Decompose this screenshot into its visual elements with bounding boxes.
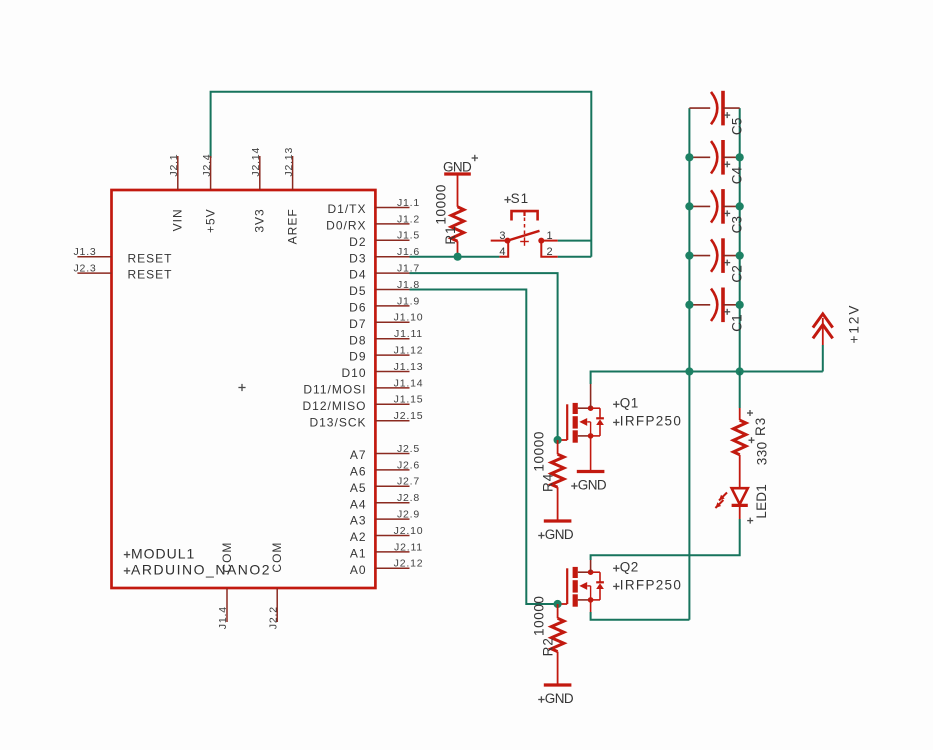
svg-text:C2: C2 [730, 265, 745, 283]
wire capacitor right rail [739, 108, 741, 371]
resistor R2 10000 [557, 604, 559, 618]
supply symbol +12V [813, 314, 833, 328]
svg-text:C1: C1 [730, 314, 745, 332]
svg-text:COM: COM [270, 542, 284, 573]
node: junction D5/Q2 gate/R2 [554, 600, 562, 608]
node: junction D4/Q1 gate/R4 [554, 436, 562, 444]
svg-text:GND: GND [545, 691, 574, 706]
svg-text:J1.13: J1.13 [394, 361, 424, 373]
svg-text:+5V: +5V [203, 208, 217, 233]
module MODUL1 ARDUINO_NANO2 body [112, 190, 376, 588]
svg-text:COM: COM [220, 542, 234, 573]
svg-text:J2.14: J2.14 [250, 147, 262, 177]
svg-text:R4: R4 [540, 473, 555, 492]
pin J1.8 D5 [375, 289, 409, 291]
pin J2.3 RESET [77, 272, 111, 274]
svg-text:Q1: Q1 [620, 395, 639, 410]
pin J1.12 D9 [375, 354, 409, 356]
pin J2.11 A1 [375, 551, 409, 553]
wire D3 net to R1 and S1 pin 4 [410, 256, 500, 258]
pin J2.6 A6 [375, 469, 409, 471]
svg-text:R2: R2 [540, 637, 555, 656]
pin J2.9 A3 [375, 518, 409, 520]
svg-text:J1.12: J1.12 [394, 345, 424, 357]
svg-text:J2.15: J2.15 [394, 410, 424, 422]
pin J1.2 D0/RX [375, 223, 409, 225]
pin J1.13 D10 [375, 371, 409, 373]
svg-text:1: 1 [547, 230, 553, 242]
svg-text:S1: S1 [511, 191, 530, 206]
pin J1.14 D11/MOSI [375, 387, 409, 389]
svg-text:J1.14: J1.14 [394, 377, 424, 389]
pin J2.12 A0 [375, 567, 409, 569]
svg-text:RESET: RESET [128, 251, 173, 265]
pin J1.4 COM [226, 588, 228, 622]
switch S1 [504, 199, 510, 201]
svg-text:R1: R1 [443, 225, 458, 244]
pin J2.7 A5 [375, 485, 409, 487]
svg-text:VIN: VIN [171, 208, 185, 231]
svg-text:RESET: RESET [128, 268, 173, 282]
svg-text:LED1: LED1 [754, 484, 769, 519]
svg-text:D4: D4 [349, 268, 366, 282]
svg-text:3V3: 3V3 [253, 208, 267, 232]
pin J2.5 A7 [375, 453, 409, 455]
pin J1.7 D4 [375, 272, 409, 274]
pin J2.10 A2 [375, 535, 409, 537]
svg-text:D1/TX: D1/TX [327, 202, 366, 216]
svg-text:Q2: Q2 [620, 559, 639, 574]
svg-text:4: 4 [499, 246, 505, 258]
svg-text:A0: A0 [350, 563, 367, 577]
svg-text:J2.7: J2.7 [397, 476, 420, 488]
svg-text:J2.11: J2.11 [394, 541, 423, 553]
S1 pin 3 [491, 240, 507, 242]
svg-text:IRFP250: IRFP250 [620, 414, 682, 429]
svg-text:D5: D5 [349, 284, 366, 298]
svg-text:J2.4: J2.4 [201, 154, 213, 177]
svg-text:C4: C4 [730, 166, 745, 184]
svg-text:2: 2 [547, 246, 553, 258]
svg-text:ARDUINO_NANO2: ARDUINO_NANO2 [131, 562, 271, 578]
pin J1.1 D1/TX [375, 207, 409, 209]
svg-text:D7: D7 [349, 317, 366, 331]
svg-text:+12V: +12V [847, 304, 862, 344]
pin J2.8 A4 [375, 502, 409, 504]
svg-text:AREF: AREF [285, 208, 299, 244]
svg-text:D6: D6 [349, 301, 366, 315]
S1 contact arm [508, 231, 540, 241]
svg-text:C5: C5 [730, 117, 745, 135]
svg-text:J1.4: J1.4 [217, 606, 229, 629]
svg-text:R3: R3 [753, 417, 768, 436]
pin J1.11 D8 [375, 338, 409, 340]
svg-text:J1.9: J1.9 [397, 295, 420, 307]
svg-text:10000: 10000 [532, 595, 547, 636]
svg-text:330: 330 [754, 441, 769, 465]
svg-text:J2.13: J2.13 [283, 147, 295, 177]
pin J1.9 D6 [375, 305, 409, 307]
svg-text:GND: GND [443, 159, 472, 174]
node: right rail / +12V rail junction [736, 367, 744, 375]
svg-text:J2.12: J2.12 [394, 558, 424, 570]
svg-text:D11/MOSI: D11/MOSI [303, 383, 366, 397]
svg-text:D12/MISO: D12/MISO [302, 399, 366, 413]
svg-text:10000: 10000 [532, 431, 547, 472]
wire capacitor left rail [688, 108, 690, 620]
svg-text:J1.2: J1.2 [397, 213, 420, 225]
wire D5 net down to Q2 gate [410, 290, 558, 605]
capacitor C3 [689, 205, 710, 207]
resistor R1 10000 [457, 174, 459, 207]
svg-text:J1.11: J1.11 [394, 328, 423, 340]
svg-text:A5: A5 [350, 481, 367, 495]
pin J2.15 D13/SCK [375, 420, 409, 422]
wire Q1 drain to +12V rail [590, 384, 592, 408]
svg-text:D10: D10 [341, 366, 366, 380]
svg-text:A3: A3 [350, 514, 367, 528]
ground symbol GND above R1 [444, 172, 471, 175]
pin J1.5 D2 [375, 239, 409, 241]
S1 pin 2 [541, 243, 557, 257]
svg-text:C3: C3 [730, 216, 745, 234]
svg-text:A1: A1 [350, 547, 367, 561]
transistor Q2 IRFP250 [558, 603, 568, 605]
ground below R4 [544, 519, 572, 522]
wire Q2 source to capacitor rail [590, 600, 592, 612]
svg-text:GND: GND [578, 477, 607, 492]
wire +5V net: J2.4 up, across top, down to S1 right side [211, 92, 592, 257]
ground below R2 [544, 683, 572, 686]
svg-text:A6: A6 [350, 465, 367, 479]
svg-text:D3: D3 [349, 251, 366, 265]
capacitor C2 [689, 255, 710, 257]
svg-text:A2: A2 [350, 530, 367, 544]
capacitor C4 [689, 156, 710, 158]
resistor R4 10000 [557, 440, 559, 454]
node: left rail / +12V rail junction [685, 367, 693, 375]
pin J1.10 D7 [375, 321, 409, 323]
svg-text:J2.9: J2.9 [397, 509, 420, 521]
resistor R3 330 [739, 372, 741, 409]
pin J1.6 D3 [375, 256, 409, 258]
pin J2.1 VIN [177, 156, 179, 190]
wire Q1 source to ground [590, 436, 592, 472]
capacitor C1 [689, 304, 710, 306]
svg-text:J2.3: J2.3 [74, 263, 97, 275]
svg-text:J1.15: J1.15 [394, 394, 424, 406]
svg-text:D13/SCK: D13/SCK [309, 415, 366, 429]
LED1 light arrows [719, 493, 727, 501]
svg-text:A7: A7 [350, 448, 367, 462]
wire S1 pin2 to vertical riser [558, 256, 592, 258]
svg-text:J2.2: J2.2 [267, 606, 279, 629]
svg-text:J2.6: J2.6 [397, 459, 420, 471]
wire Q2 drain to LED1 cathode [590, 560, 592, 572]
pin J1.15 D12/MISO [375, 403, 409, 405]
svg-text:IRFP250: IRFP250 [620, 578, 682, 593]
pin J2.13 AREF [292, 156, 294, 190]
svg-text:GND: GND [545, 527, 574, 542]
svg-text:J1.10: J1.10 [394, 312, 424, 324]
svg-text:J1.3: J1.3 [74, 246, 97, 258]
pin J1.3 RESET [77, 256, 111, 258]
svg-text:J1.5: J1.5 [397, 230, 420, 242]
svg-text:J2.5: J2.5 [397, 443, 420, 455]
node: junction R1/D3 wire [454, 253, 462, 261]
wire D4 net down to Q1 gate [410, 273, 558, 440]
svg-text:MODUL1: MODUL1 [131, 545, 195, 561]
wire S1 pin1 to riser [558, 240, 592, 242]
svg-text:D9: D9 [349, 350, 366, 364]
LED LED1 [732, 488, 748, 504]
svg-text:D2: D2 [349, 235, 366, 249]
pin J2.14 3V3 [259, 156, 261, 190]
svg-text:J2.1: J2.1 [168, 154, 180, 177]
svg-text:A4: A4 [350, 497, 367, 511]
S1 pin 4 [499, 243, 508, 257]
svg-text:J2.8: J2.8 [397, 492, 420, 504]
svg-text:D0/RX: D0/RX [326, 219, 366, 233]
ground below Q1 source [577, 470, 605, 473]
capacitor C5 [689, 107, 710, 109]
pin J2.2 COM [276, 588, 278, 622]
svg-text:J2.10: J2.10 [394, 525, 424, 537]
S1 pin 1 [543, 240, 558, 242]
svg-text:J1.1: J1.1 [397, 197, 420, 209]
transistor Q1 IRFP250 [558, 439, 568, 441]
pin J2.4 +5V [210, 156, 212, 190]
svg-text:D8: D8 [349, 333, 366, 347]
svg-text:10000: 10000 [434, 184, 449, 225]
